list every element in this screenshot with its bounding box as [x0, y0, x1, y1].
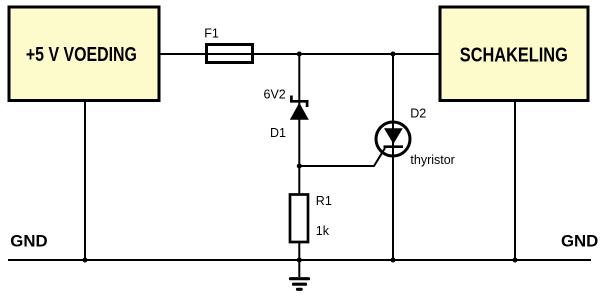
- svg-text:1k: 1k: [316, 224, 330, 238]
- svg-text:GND: GND: [10, 232, 47, 251]
- svg-text:D2: D2: [410, 107, 426, 121]
- svg-text:GND: GND: [561, 232, 598, 251]
- svg-text:6V2: 6V2: [264, 88, 286, 102]
- svg-text:SCHAKELING: SCHAKELING: [460, 44, 568, 66]
- svg-text:R1: R1: [316, 194, 332, 208]
- svg-text:+5 V VOEDING: +5 V VOEDING: [26, 44, 137, 66]
- svg-text:D1: D1: [270, 126, 286, 140]
- svg-text:thyristor: thyristor: [410, 153, 454, 167]
- svg-text:F1: F1: [204, 26, 219, 40]
